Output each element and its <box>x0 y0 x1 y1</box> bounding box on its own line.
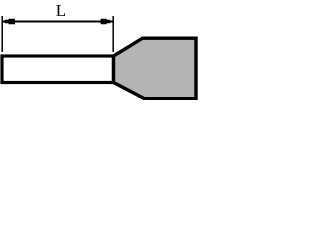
arrowhead right <box>101 19 114 25</box>
extension line right <box>112 16 114 52</box>
arrowhead left <box>2 19 15 25</box>
extension line left <box>1 16 3 52</box>
collar (gray plastic funnel) <box>114 38 197 98</box>
svg-text:L: L <box>56 1 66 20</box>
dimension line <box>3 21 114 23</box>
ferrule sleeve (metal tube) <box>2 56 114 83</box>
